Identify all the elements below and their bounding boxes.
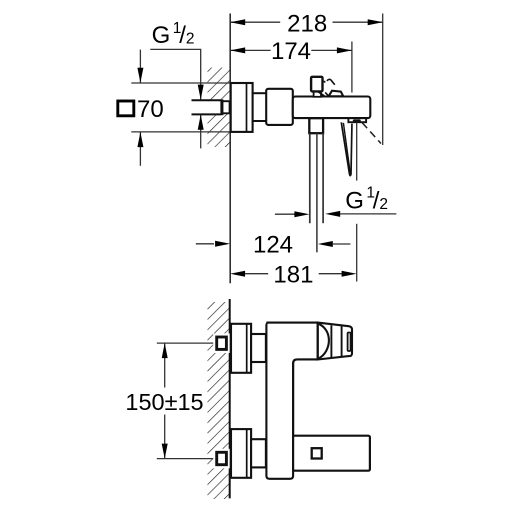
square on spout bbox=[312, 448, 322, 458]
arm bottom edge bbox=[293, 359, 318, 435]
upper union nut bbox=[251, 334, 266, 362]
upper wall nut bbox=[213, 333, 230, 353]
supply shaft through wall bbox=[192, 100, 222, 114]
spout center line bbox=[316, 133, 318, 252]
wall surface / extension line at x=230.2 bbox=[229, 14, 231, 284]
svg-text:2: 2 bbox=[186, 30, 195, 47]
svg-text:G: G bbox=[345, 188, 364, 215]
dim 174 bbox=[230, 42, 352, 93]
svg-text:70: 70 bbox=[137, 96, 164, 123]
tick by knob bbox=[324, 81, 326, 82]
escutcheon plate (side) bbox=[231, 83, 253, 132]
main body bar bbox=[293, 97, 371, 119]
dim 181 bbox=[245, 273, 268, 275]
upper escutcheon bbox=[231, 324, 251, 373]
svg-text:150±15: 150±15 bbox=[125, 389, 203, 415]
ext line 181 (handle) bbox=[356, 123, 358, 181]
150±15 extension lines bbox=[157, 342, 215, 344]
wall hatching (top view) bbox=[208, 68, 230, 148]
svg-text:124: 124 bbox=[253, 232, 293, 259]
dark slot in mount bbox=[353, 119, 361, 122]
spout bracket below body bbox=[309, 118, 323, 133]
svg-text:181: 181 bbox=[273, 261, 313, 288]
svg-text:218: 218 bbox=[287, 11, 327, 38]
dashed swivel line bbox=[362, 123, 381, 144]
spout bar bbox=[293, 436, 370, 471]
fill white of arm region bbox=[268, 324, 317, 359]
dim 124 bbox=[196, 243, 214, 245]
150±15 dimension line + arrows bbox=[164, 343, 166, 387]
handle slot bbox=[348, 333, 351, 352]
square symbol + 70 bbox=[118, 101, 134, 116]
handle junction line bbox=[317, 323, 319, 360]
handle D-arc bbox=[318, 324, 329, 359]
arm top edge bbox=[266, 322, 317, 324]
G1/2 outlet dimension arrows bbox=[275, 213, 295, 215]
svg-text:174: 174 bbox=[271, 38, 311, 65]
small arc (lever raised position) bbox=[327, 79, 335, 84]
lower wall nut bbox=[213, 449, 230, 469]
wall hatching (bottom) bbox=[208, 302, 230, 499]
svg-text:G: G bbox=[152, 22, 171, 49]
diverter knob bbox=[311, 77, 322, 92]
wedge (handle seen from above) bbox=[329, 91, 344, 97]
handle (bottom view) bbox=[318, 323, 352, 360]
70 arrows bbox=[139, 50, 141, 83]
neck bbox=[253, 92, 267, 94]
body + arm outline bbox=[266, 323, 317, 479]
lower escutcheon bbox=[231, 429, 251, 478]
nipple at wall bbox=[222, 101, 229, 113]
cartridge block bbox=[266, 89, 293, 125]
diagonal at stem base bbox=[318, 92, 324, 96]
dim 218 bbox=[230, 14, 383, 146]
70 extension lines bbox=[131, 82, 229, 84]
lower union nut bbox=[251, 439, 266, 467]
lever blade bbox=[341, 122, 352, 175]
handle mount block below body bbox=[348, 118, 366, 122]
wall line bbox=[229, 299, 231, 498]
handle divisions bbox=[330, 325, 332, 357]
spout outlet lines bbox=[309, 133, 311, 223]
G1/2 leader shelf + down arrow bbox=[150, 49, 200, 99]
G1/2 up arrow below shaft bbox=[200, 115, 202, 149]
svg-text:2: 2 bbox=[379, 196, 388, 213]
diverter knob stem bbox=[314, 91, 321, 96]
